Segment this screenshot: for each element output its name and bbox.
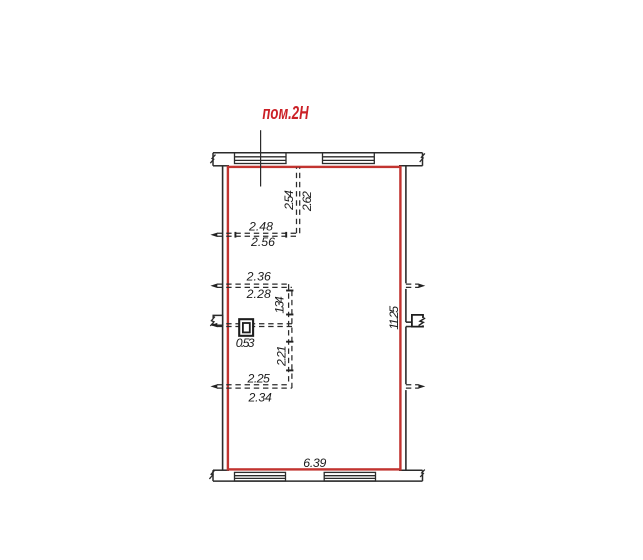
svg-text:0.53: 0.53: [236, 336, 255, 350]
svg-text:2.36: 2.36: [246, 270, 271, 284]
svg-text:6.39: 6.39: [303, 456, 326, 470]
svg-text:2.48: 2.48: [248, 220, 273, 234]
svg-text:11.25: 11.25: [387, 306, 401, 330]
svg-text:2.28: 2.28: [246, 287, 271, 301]
svg-text:2.54: 2.54: [282, 190, 296, 211]
svg-text:2.62: 2.62: [300, 191, 314, 212]
svg-text:пом.2Н: пом.2Н: [262, 102, 309, 123]
svg-text:2.56: 2.56: [250, 235, 275, 249]
svg-text:1.34: 1.34: [272, 296, 286, 313]
svg-text:2.21: 2.21: [274, 346, 288, 368]
svg-text:2.34: 2.34: [248, 391, 272, 405]
svg-text:2.25: 2.25: [247, 372, 271, 386]
